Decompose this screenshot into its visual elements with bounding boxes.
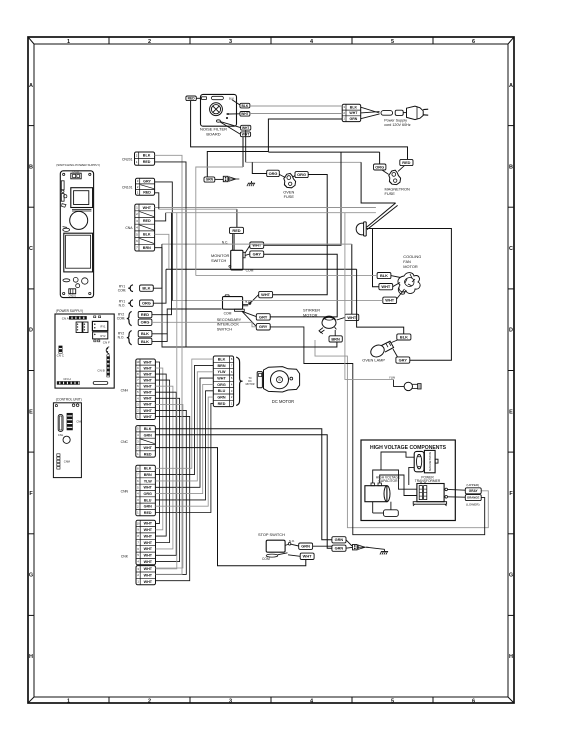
svg-text:CNH: CNH [121, 389, 129, 393]
wire stirrer WHT horiz [162, 243, 352, 245]
svg-text:GRY: GRY [259, 324, 268, 329]
svg-text:BLU: BLU [218, 389, 226, 393]
svg-text:RED: RED [144, 452, 152, 456]
svg-text:B: B [29, 164, 33, 170]
connector CNH [136, 359, 156, 420]
label BLK RY2-NO-a [138, 331, 152, 337]
wire lamp to BLK [392, 340, 398, 343]
svg-text:CN101: CN101 [122, 186, 133, 190]
svg-text:BLK: BLK [144, 427, 152, 431]
svg-text:2: 2 [148, 698, 151, 704]
wire bulb lead [394, 380, 405, 387]
wire CNA WHT long run [155, 207, 376, 209]
monitor switch [229, 250, 245, 270]
power cord strands [361, 107, 380, 119]
brace RY1 COM [128, 285, 133, 292]
svg-text:(SWITCHING POWER SUPPLY): (SWITCHING POWER SUPPLY) [56, 163, 100, 167]
svg-text:CN201: CN201 [122, 158, 133, 162]
svg-text:RED: RED [141, 312, 149, 317]
wire RED trunk noise to magnetron [191, 101, 408, 160]
svg-text:WHT: WHT [385, 298, 394, 303]
svg-text:RED: RED [143, 191, 151, 195]
power cord sheath [381, 110, 403, 115]
oven lamp [369, 341, 394, 359]
label ORANGE hv [465, 495, 481, 501]
svg-text:WHT: WHT [143, 391, 152, 395]
wire fan WHT-2 run [172, 300, 382, 302]
label GRN earth [204, 177, 215, 182]
svg-text:WHT: WHT [143, 415, 152, 419]
wire monitor COM run [166, 268, 357, 270]
DC motor [257, 367, 299, 392]
svg-text:TRANSFORMER: TRANSFORMER [415, 479, 441, 483]
label RED magnetron-fuse [400, 159, 413, 165]
svg-text:2: 2 [148, 39, 151, 45]
svg-text:BLK: BLK [141, 331, 149, 336]
connector CN201 [135, 152, 155, 165]
svg-text:WHT: WHT [144, 574, 153, 578]
svg-text:GRN: GRN [217, 396, 226, 400]
svg-text:CNK: CNK [121, 555, 129, 559]
secondary interlock caption [217, 317, 242, 332]
RY2 NO designator [118, 332, 125, 340]
wire hv capacitor to transformer [373, 470, 417, 496]
wire CNC BLK long run [155, 429, 332, 540]
svg-text:STOP SWITCH: STOP SWITCH [258, 532, 285, 537]
wire magnetron to hv box [381, 452, 414, 485]
svg-text:OVEN LAMP: OVEN LAMP [362, 357, 385, 362]
svg-text:N.O.: N.O. [119, 303, 126, 307]
label WHT noise-filter-2 [241, 125, 251, 130]
svg-text:MOTOR: MOTOR [246, 383, 255, 386]
wire monitor to WHT [245, 246, 250, 253]
svg-text:BOARD: BOARD [206, 131, 220, 136]
brace RY1 NO [128, 300, 133, 307]
connector CNC [136, 426, 156, 458]
svg-text:BLK: BLK [143, 154, 151, 158]
label ORG oven-fuse-right [295, 172, 308, 178]
svg-text:WHT: WHT [143, 379, 152, 383]
wire noise board to RED label [196, 97, 200, 99]
wire lamp to GRY [393, 349, 398, 357]
svg-text:WHT: WHT [143, 486, 152, 490]
svg-text:COM: COM [262, 557, 270, 561]
wire fan BLK riser [196, 167, 243, 276]
svg-text:(POWER SUPPLY): (POWER SUPPLY) [56, 309, 83, 313]
svg-text:WHT: WHT [143, 385, 152, 389]
label ORG oven-fuse-left [267, 170, 280, 176]
svg-text:GRAY: GRAY [469, 489, 479, 493]
svg-text:COM.: COM. [118, 289, 127, 293]
wire noise board pad to WHT label [229, 113, 240, 115]
svg-text:WHT: WHT [241, 112, 249, 116]
wire transformer to ORANGE [448, 496, 466, 498]
label WHT stop-switch [300, 553, 314, 559]
svg-text:C: C [509, 246, 513, 252]
svg-text:D: D [509, 328, 513, 334]
wire ORG fuse riser [379, 152, 381, 164]
wire oven fuse ORG feed [252, 162, 266, 173]
svg-text:G: G [29, 573, 33, 579]
wire cutout to fan WHT [373, 229, 379, 287]
ground symbol bottom [380, 549, 388, 554]
svg-text:WHT: WHT [261, 292, 270, 297]
connector CNK upper [136, 520, 156, 565]
wire WHT trunk [268, 151, 379, 153]
wire fan WHT lead [393, 283, 400, 287]
wire lamp BLK run [357, 269, 404, 334]
wire noise board pad to WHT-2 label [220, 122, 240, 128]
label BLK oven-lamp [397, 334, 411, 340]
svg-text:BRN: BRN [143, 246, 151, 250]
connector CNN [136, 465, 156, 516]
svg-text:5: 5 [391, 698, 394, 704]
svg-text:ORG: ORG [375, 164, 384, 169]
label ORG magnetron-fuse [374, 164, 386, 170]
svg-text:1: 1 [67, 698, 70, 704]
wire RY2 RED riser [152, 213, 172, 315]
wire harness DC motor to CNN [155, 359, 213, 512]
svg-text:3: 3 [229, 39, 232, 45]
wire monitor RED bus [159, 208, 237, 210]
svg-text:WHT: WHT [144, 554, 153, 558]
svg-text:BRN: BRN [218, 364, 226, 368]
svg-text:ORANGE: ORANGE [467, 496, 479, 500]
svg-text:GRY: GRY [143, 179, 151, 183]
svg-text:N.O.: N.O. [289, 539, 295, 543]
wire transformer to GRAY [448, 488, 466, 491]
wire GRN cord run [207, 119, 342, 177]
wire cutout to lamp-box [367, 229, 452, 361]
wire cutout diagonal lower [367, 205, 398, 229]
wire cutout diagonal upper [367, 203, 396, 227]
svg-text:CN B: CN B [97, 369, 104, 373]
stirrer motor caption [303, 308, 320, 318]
svg-text:WHT: WHT [303, 554, 312, 559]
wire BLK cord to noise filter [250, 105, 342, 107]
svg-text:E: E [29, 409, 33, 415]
wire noise board to BLK label [232, 100, 240, 105]
wire stop COM to WHT [288, 555, 300, 557]
wire bus long riser [156, 213, 177, 569]
svg-text:CNM: CNM [64, 459, 71, 463]
stirrer motor [319, 316, 336, 334]
svg-text:CNA: CNA [125, 226, 133, 230]
ground symbol top [247, 181, 255, 186]
wire fan WHT-2 lead [397, 289, 405, 299]
label ORG RY1-NO [140, 300, 154, 306]
svg-text:GRN: GRN [144, 433, 153, 437]
svg-text:WHT: WHT [144, 522, 153, 526]
svg-text:H: H [509, 654, 513, 660]
svg-text:RED: RED [143, 160, 151, 164]
svg-text:WHT: WHT [242, 126, 250, 130]
wire BRN from CNA [155, 248, 186, 347]
oven fuse [284, 173, 296, 187]
svg-text:WHT: WHT [143, 403, 152, 407]
wire ORG oven fuse to interlock [273, 175, 328, 295]
svg-text:C: C [29, 246, 33, 252]
hv diode [373, 502, 399, 517]
svg-text:BRN: BRN [331, 336, 340, 341]
svg-text:COM.: COM. [117, 316, 126, 320]
wire oven fuse left lead [279, 174, 285, 177]
inline plug chassis-2 [353, 545, 369, 550]
label GRY interlock-b [256, 324, 270, 330]
wire CNA RED stub [155, 213, 166, 221]
svg-text:WHT: WHT [217, 377, 226, 381]
wire interlock to GRY-b [242, 311, 256, 326]
svg-text:FUSE: FUSE [385, 191, 396, 196]
label WHT cooling-fan [379, 284, 393, 290]
svg-text:10: 10 [136, 360, 139, 364]
svg-text:WHT: WHT [144, 567, 153, 571]
svg-text:FUSE: FUSE [284, 194, 295, 199]
cooling fan caption [403, 254, 421, 269]
brace DC motor harness [236, 357, 242, 406]
wire RY1 NO riser [153, 269, 166, 303]
svg-text:ORG: ORG [297, 172, 306, 177]
label GRN stop-switch [299, 543, 313, 549]
svg-text:ORG: ORG [143, 492, 152, 496]
svg-text:WHT: WHT [143, 397, 152, 401]
high voltage capacitor [365, 483, 390, 502]
svg-text:1: 1 [67, 39, 70, 45]
svg-text:RED: RED [188, 97, 196, 101]
wire RY1 COM riser [153, 244, 162, 288]
wire interlock to WHT [249, 295, 259, 305]
label BLK RY2-NO-b [138, 338, 152, 344]
svg-text:GRY: GRY [399, 358, 408, 363]
svg-text:CN F: CN F [103, 340, 110, 344]
wire cutout feed [361, 162, 396, 203]
svg-text:YLW: YLW [144, 479, 153, 483]
svg-text:CNK: CNK [76, 420, 82, 424]
wire harness CNH to CNK [155, 362, 189, 581]
svg-text:DC MOTOR: DC MOTOR [272, 399, 294, 404]
label GRAY hv [465, 488, 481, 494]
label RED monitor-switch [230, 227, 244, 233]
wire stirrer WHT riser [351, 244, 353, 314]
svg-text:SWITCH: SWITCH [217, 326, 233, 331]
svg-text:(CONTROL UNIT): (CONTROL UNIT) [56, 397, 82, 401]
svg-text:WHT: WHT [143, 446, 152, 450]
label WHT monitor-switch [250, 242, 264, 248]
magnetron fuse caption [385, 187, 410, 197]
svg-text:WHT: WHT [381, 284, 390, 289]
brace RY2 COM [127, 311, 132, 325]
connector power cord [342, 104, 361, 121]
wire RY2 BLK-b riser [152, 334, 167, 342]
wire WHT-3 to oven fuse ORG [242, 137, 244, 167]
magnetron fuse [389, 170, 401, 184]
svg-text:WHT: WHT [143, 360, 152, 364]
wire monitor to GRY [245, 254, 250, 255]
label WHT noise-filter-3 [240, 132, 250, 137]
power transformer caption [415, 475, 441, 483]
oven fuse caption [283, 190, 294, 200]
wire stirrer to BRN [334, 330, 336, 336]
svg-text:WHT: WHT [143, 206, 152, 210]
label RED RY2-COM [138, 312, 152, 318]
control unit board [53, 403, 82, 478]
wire stirrer to WHT [337, 317, 345, 320]
svg-text:MOTOR: MOTOR [303, 312, 318, 317]
connector CN101 [136, 178, 155, 195]
label RED noise-filter [186, 96, 196, 101]
svg-text:WHT: WHT [143, 366, 152, 370]
monitor switch caption [211, 253, 229, 263]
svg-text:ORG: ORG [141, 320, 150, 325]
wire mid bus 212 [166, 212, 376, 214]
svg-text:BLK: BLK [142, 286, 150, 291]
svg-text:BLK: BLK [141, 339, 149, 344]
svg-text:WHT: WHT [144, 535, 153, 539]
svg-text:COM: COM [224, 312, 232, 316]
svg-text:ORG: ORG [217, 383, 226, 387]
svg-text:ORG: ORG [269, 171, 278, 176]
stop switch [266, 540, 291, 557]
label BRN stirrer [329, 336, 342, 342]
power plug [403, 106, 428, 119]
RY2 COM designator [117, 312, 126, 320]
svg-text:GRY: GRY [253, 252, 262, 257]
svg-text:cord 120V 60Hz: cord 120V 60Hz [384, 123, 411, 127]
svg-text:RY2: RY2 [101, 334, 107, 338]
wire CN201 BLK run [155, 155, 182, 574]
svg-text:WHT: WHT [144, 528, 153, 532]
noise filter board caption [200, 127, 227, 137]
svg-text:(LOWER): (LOWER) [466, 502, 479, 506]
svg-text:WHT: WHT [349, 111, 358, 115]
high voltage components box [361, 440, 455, 521]
wire magnetron filament upper [315, 340, 488, 528]
svg-text:GRN: GRN [144, 505, 153, 509]
wire RY2 BLK-a riser [152, 309, 222, 334]
frame row letters A-H [29, 83, 513, 660]
svg-text:WHT: WHT [143, 409, 152, 413]
label GRN stop-a [332, 537, 346, 543]
svg-text:BLK: BLK [350, 105, 358, 109]
wire WHT cord to noise filter [250, 113, 342, 115]
svg-text:MOTOR: MOTOR [403, 264, 418, 269]
svg-text:RED: RED [402, 160, 410, 165]
svg-text:B: B [509, 164, 513, 170]
power supply board [55, 314, 114, 388]
label WHT stirrer [345, 314, 359, 320]
cooling fan motor [398, 273, 420, 295]
label BLK RY1-COM [140, 285, 154, 291]
svg-text:BLK: BLK [229, 96, 234, 100]
label WHT noise-filter [240, 112, 250, 117]
svg-text:GRN: GRN [206, 178, 214, 182]
wire stirrer BRN run [186, 342, 337, 347]
svg-text:CN C: CN C [57, 354, 65, 358]
svg-text:3: 3 [229, 698, 232, 704]
label GRN stop-b [332, 545, 346, 551]
svg-text:A: A [509, 83, 513, 89]
svg-text:MAGNETRON: MAGNETRON [428, 452, 432, 471]
connector DC motor [213, 356, 233, 407]
label GRY oven-lamp [396, 357, 410, 363]
svg-text:WHT: WHT [144, 560, 153, 564]
wire oven fuse right lead [293, 175, 296, 177]
wire fan BLK lead [391, 276, 401, 278]
interlock N.O. contact [249, 302, 251, 304]
svg-text:BLK: BLK [143, 233, 151, 237]
svg-text:BLK: BLK [400, 334, 408, 339]
wire RED monitor plunger [233, 234, 234, 251]
svg-text:GRN: GRN [335, 537, 344, 542]
svg-text:GRY: GRY [259, 314, 268, 319]
RY1 NO designator [119, 299, 126, 307]
power cord caption [384, 119, 411, 128]
wire GRN label to plug [215, 178, 224, 180]
svg-text:GRN: GRN [335, 546, 344, 551]
svg-text:CN201: CN201 [68, 295, 76, 298]
wire CNC WHT to stop switch [155, 448, 305, 566]
wire fan BLK run [196, 275, 377, 277]
svg-text:GRN: GRN [350, 117, 358, 121]
indicator bulb [404, 382, 421, 390]
svg-text:Power Supply: Power Supply [384, 119, 407, 123]
wire monitor WHT riser [264, 152, 341, 245]
svg-text:D: D [29, 328, 33, 334]
svg-text:WHT: WHT [252, 243, 261, 248]
label WHT interlock [259, 291, 273, 297]
wire CN201 RED run [155, 162, 186, 347]
magnetron [414, 450, 438, 472]
svg-text:5: 5 [391, 39, 394, 45]
label ORG RY2-COM [138, 319, 152, 325]
switching power supply board [60, 171, 93, 298]
svg-text:BLK: BLK [218, 358, 226, 362]
svg-text:RY1: RY1 [101, 325, 107, 329]
wire CNC GRN long run [155, 435, 332, 548]
svg-text:YLW: YLW [389, 375, 395, 379]
svg-text:SWITCH: SWITCH [211, 258, 227, 263]
svg-text:YLW: YLW [218, 370, 227, 374]
svg-text:WHT: WHT [143, 373, 152, 377]
svg-text:CN H: CN H [63, 377, 70, 381]
svg-text:RED: RED [218, 402, 226, 406]
border frame outer [28, 37, 514, 703]
svg-text:WHT: WHT [144, 580, 153, 584]
inline plug chassis [223, 176, 239, 181]
svg-text:BRN: BRN [144, 473, 152, 477]
svg-text:RED: RED [232, 228, 240, 233]
label BLK cooling-fan [377, 273, 391, 279]
wire GRN labels to plug [346, 540, 352, 548]
label GRY interlock-a [256, 314, 270, 320]
svg-text:H: H [29, 654, 33, 660]
svg-text:(UPPER): (UPPER) [466, 483, 479, 487]
svg-text:BLU: BLU [144, 498, 152, 502]
thermal cutout [356, 222, 366, 236]
svg-text:6: 6 [472, 39, 475, 45]
high voltage capacitor caption [376, 475, 401, 483]
wire CN101 RED run [155, 193, 159, 209]
wire magnetron filament lower [270, 327, 485, 535]
svg-text:RED: RED [144, 511, 152, 515]
connector CNK lower [136, 566, 156, 585]
wire WHT-2 riser [245, 130, 247, 162]
label BLK noise-filter [240, 103, 250, 108]
noise filter board [201, 94, 237, 126]
svg-text:N.O.: N.O. [118, 336, 125, 340]
svg-text:BLK: BLK [380, 273, 388, 278]
svg-text:WHT: WHT [144, 547, 153, 551]
